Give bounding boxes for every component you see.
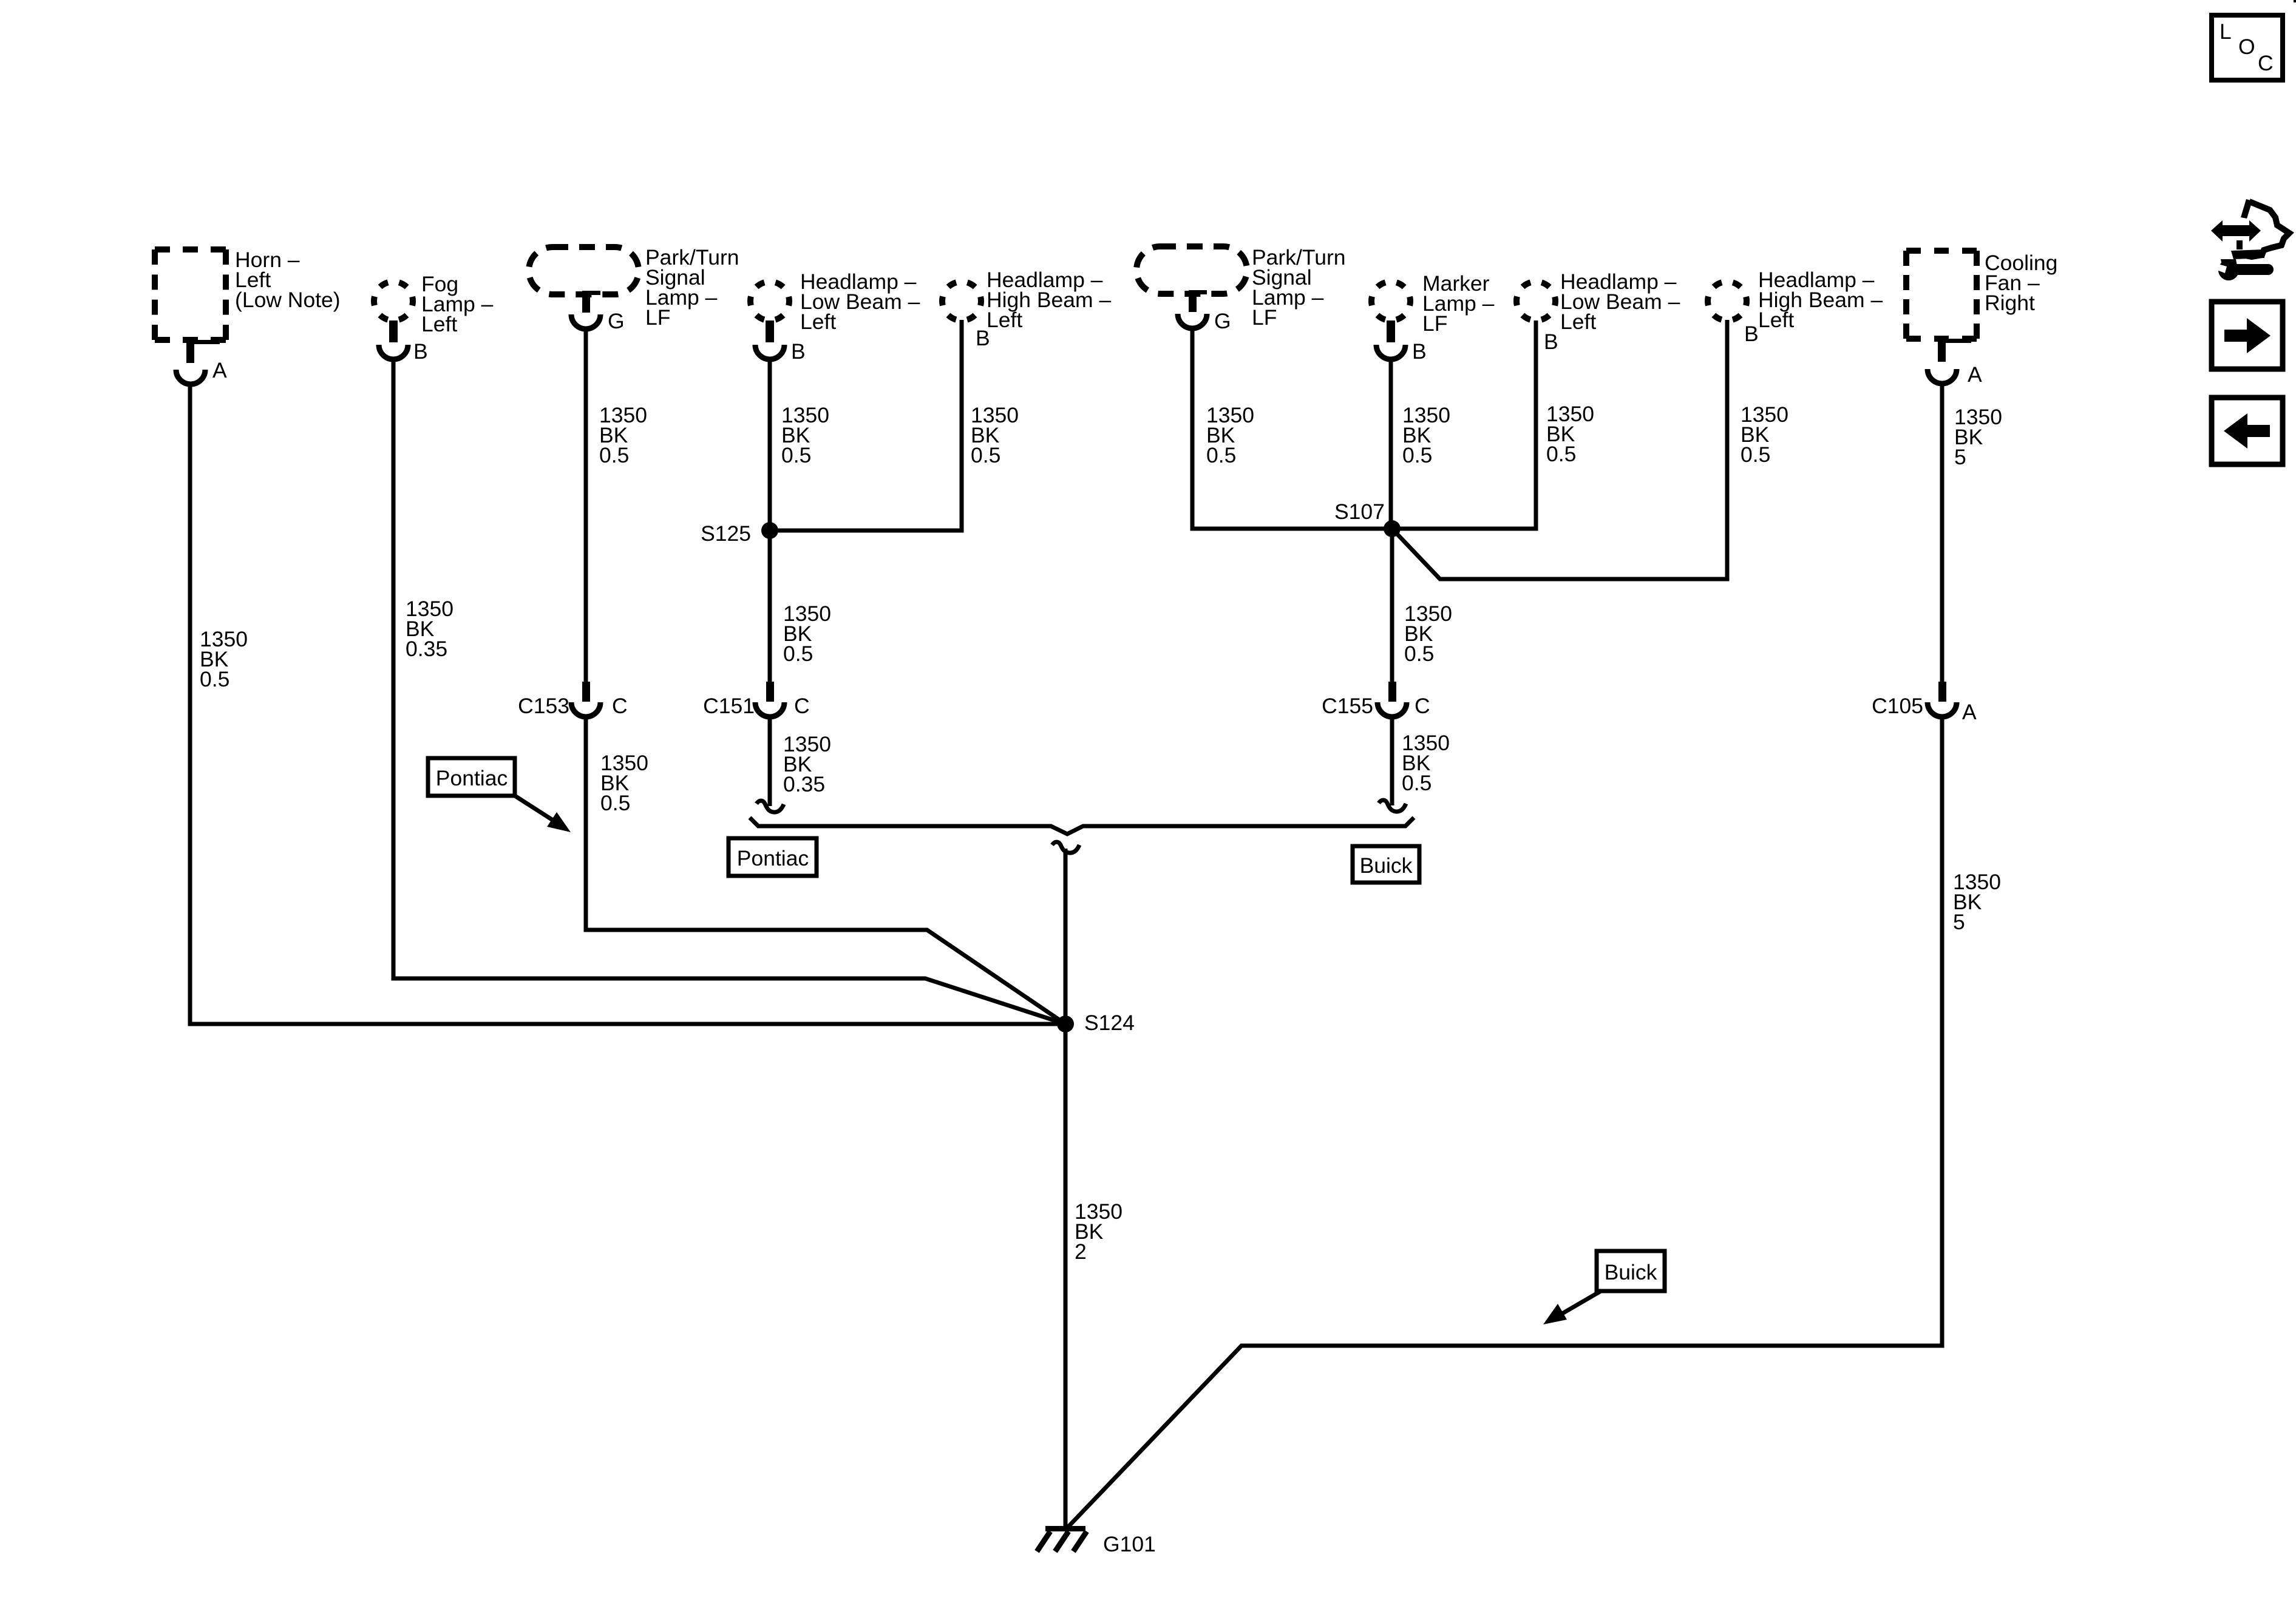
tool navigation icon outlined arrow: [2231, 199, 2289, 259]
wire park/turn 1 to C153 1350 BK 0.5: [584, 327, 588, 682]
horn connector cavity arc: [176, 370, 205, 384]
high beam 1 component label: [987, 268, 1111, 332]
svg-text:B: B: [413, 339, 428, 364]
wire label 1350 BK 0.5 below S107: [1404, 602, 1452, 666]
park/turn 1 pin terminal: [582, 291, 600, 313]
svg-text:L: L: [2220, 19, 2232, 44]
fog lamp E2 Fog Lamp - Left dashed circle: [374, 282, 413, 320]
wire label 1350 BK 0.5: [200, 627, 248, 691]
svg-text:2: 2: [1075, 1239, 1087, 1264]
wire label 1350 BK 0.5 below S125: [783, 602, 831, 666]
wire end squiggle at C151 branch: [756, 801, 784, 812]
harness center squiggle: [1052, 842, 1079, 853]
marker lamp pin terminal: [1387, 320, 1395, 342]
high beam 2 component label: [1758, 268, 1883, 332]
wire label 1350 BK 0.5: [1741, 402, 1788, 467]
svg-text:B: B: [976, 326, 990, 350]
wire park/turn 2 to S107: [1192, 327, 1392, 529]
svg-text:S124: S124: [1084, 1011, 1135, 1035]
wire high beam 1 to S125: [770, 320, 962, 531]
fog lamp component label: [421, 272, 494, 336]
wire label 1350 BK 0.5: [1206, 403, 1254, 467]
svg-text:G101: G101: [1103, 1532, 1156, 1556]
connector C153 cavity arc: [571, 702, 600, 717]
connector C151 cavity arc: [755, 702, 784, 717]
wire S107 to C155: [1390, 529, 1394, 682]
headlamp high beam left E5 dashed circle: [942, 282, 981, 320]
marker lamp LF E7 dashed circle: [1371, 282, 1410, 320]
svg-text:Left: Left: [987, 308, 1022, 332]
svg-text:C: C: [1415, 694, 1430, 718]
tool navigation icon double arrow: [2211, 220, 2261, 242]
marker connector cavity arc: [1376, 345, 1405, 359]
cooling fan connector cavity arc: [1927, 369, 1957, 384]
connector C151 pin: [766, 682, 774, 702]
ground G101 symbol: [1037, 1526, 1087, 1551]
svg-text:LF: LF: [1422, 311, 1447, 336]
svg-text:C: C: [794, 694, 810, 718]
harness brace Pontiac/Buick grouping: [750, 818, 1414, 834]
wire label 1350 BK 2: [1075, 1199, 1123, 1264]
wire label 1350 BK 0.5: [1402, 403, 1450, 467]
park/turn 2 connector cavity arc: [1178, 314, 1207, 328]
connector C153 pin: [582, 682, 590, 702]
svg-text:0.5: 0.5: [1402, 443, 1432, 467]
svg-text:G: G: [1214, 309, 1231, 333]
Pontiac callout box 1: [428, 758, 515, 796]
wire C155 to Buick harness 1350 BK 0.5: [1390, 718, 1394, 805]
low beam 1 component label: [800, 269, 920, 334]
Buick callout arrow: [1543, 1291, 1601, 1324]
hyperlink left arrow box: [2212, 398, 2283, 464]
horn pin terminal: [186, 340, 220, 363]
wire C151 to Pontiac harness 1350 BK 0.35: [768, 718, 772, 806]
svg-text:5: 5: [1954, 445, 1966, 469]
wire end squiggle at C155 branch: [1379, 800, 1406, 812]
svg-text:C153: C153: [518, 694, 569, 718]
wire high beam 2 to S107: [1392, 320, 1727, 579]
svg-text:0.5: 0.5: [971, 443, 1000, 467]
hyperlink right arrow box: [2212, 302, 2283, 369]
svg-text:C: C: [2258, 51, 2274, 75]
Pontiac callout arrow: [515, 796, 571, 832]
Buick callout box 2: [1597, 1251, 1665, 1291]
svg-text:B: B: [1412, 339, 1427, 364]
wire cooling fan to C105 1350 BK 5: [1940, 382, 1944, 682]
connector C105 cavity arc: [1927, 702, 1957, 717]
Pontiac callout box 2: [729, 838, 817, 876]
svg-text:Pontiac: Pontiac: [737, 846, 809, 870]
LOC legend box top right: [2212, 15, 2283, 80]
wire fog lamp to S124 1350 BK 0.35: [393, 358, 1065, 1024]
svg-text:Right: Right: [1985, 291, 2035, 315]
svg-text:5: 5: [1953, 910, 1965, 934]
svg-text:O: O: [2238, 35, 2255, 59]
wire label 1350 BK 0.35: [783, 732, 831, 796]
svg-text:C: C: [612, 694, 628, 718]
park/turn 2 component label: [1252, 245, 1346, 330]
connector C105 pin: [1938, 682, 1946, 702]
splice S124 dot: [1057, 1015, 1074, 1032]
svg-text:0.5: 0.5: [600, 791, 630, 815]
park/turn 1 component label: [645, 245, 739, 330]
horn E1 Horn - Left (Low Note) dashed component box: [155, 249, 226, 340]
horn component label: [235, 248, 341, 312]
svg-text:0.5: 0.5: [1546, 442, 1576, 466]
svg-text:0.5: 0.5: [599, 443, 629, 467]
svg-text:Left: Left: [421, 312, 457, 336]
wire label 1350 BK 0.5: [1546, 402, 1594, 466]
svg-text:LF: LF: [1252, 305, 1277, 330]
splice S125 dot: [761, 522, 778, 539]
headlamp high beam left E9 dashed circle: [1708, 282, 1747, 320]
fog connector cavity arc: [379, 345, 408, 359]
cooling fan pin terminal: [1938, 339, 1971, 362]
wire label 1350 BK 5: [1953, 870, 2001, 934]
marker lamp component label: [1422, 271, 1495, 336]
wire label 1350 BK 0.5: [781, 403, 829, 467]
fog lamp pin terminal: [389, 320, 398, 342]
wire label 1350 BK 0.5: [971, 403, 1019, 467]
svg-text:0.5: 0.5: [1741, 442, 1770, 467]
park/turn signal lamp LF E3 dashed stadium outline: [529, 247, 639, 294]
wire horn to S124 1350 BK 0.5: [190, 382, 1065, 1024]
headlamp low beam left E8 dashed circle: [1517, 282, 1555, 320]
tool navigation icon wrench: [2214, 259, 2268, 280]
svg-text:C105: C105: [1872, 694, 1923, 718]
svg-text:0.5: 0.5: [1404, 642, 1434, 666]
svg-text:0.35: 0.35: [406, 637, 447, 661]
svg-text:Buick: Buick: [1360, 853, 1413, 878]
low beam 1 pin terminal: [766, 320, 774, 342]
svg-text:Left: Left: [1758, 308, 1794, 332]
svg-text:A: A: [1968, 362, 1982, 387]
splice S107 dot: [1384, 520, 1401, 537]
svg-text:0.5: 0.5: [783, 642, 813, 666]
svg-text:0.5: 0.5: [1402, 771, 1432, 795]
svg-text:LF: LF: [645, 305, 670, 330]
headlamp low beam left E4 dashed circle: [750, 282, 789, 320]
low beam 1 connector cavity arc: [755, 345, 784, 359]
svg-text:C155: C155: [1322, 694, 1373, 718]
low beam 2 component label: [1560, 269, 1680, 334]
wire low beam 2 to S107: [1392, 320, 1536, 529]
wire label 1350 BK 0.5: [1402, 731, 1450, 795]
wire label 1350 BK 0.5: [600, 751, 648, 815]
page corner mark: [2294, 0, 2296, 2]
svg-text:S125: S125: [701, 521, 751, 546]
svg-text:A: A: [212, 358, 227, 382]
svg-text:B: B: [1744, 322, 1759, 346]
svg-text:0.5: 0.5: [200, 667, 229, 691]
wire label 1350 BK 0.35: [406, 597, 453, 661]
svg-text:Left: Left: [1560, 310, 1596, 334]
svg-text:0.5: 0.5: [1206, 443, 1236, 467]
svg-text:C151: C151: [703, 694, 755, 718]
svg-text:Buick: Buick: [1605, 1260, 1657, 1284]
park/turn 1 connector cavity arc: [571, 314, 600, 329]
Buick callout box 1: [1353, 846, 1419, 883]
wire low beam 1 to S125: [768, 358, 772, 682]
svg-text:G: G: [608, 309, 625, 333]
wire label 1350 BK 5: [1954, 405, 2002, 469]
svg-text:Pontiac: Pontiac: [436, 766, 508, 790]
connector C155 pin: [1388, 682, 1396, 702]
wire C153 to S124 1350 BK 0.5: [586, 718, 1065, 1024]
connector C155 cavity arc: [1377, 702, 1407, 717]
wire C105 to G101 1350 BK 5: [1067, 718, 1942, 1528]
wire marker lamp to S107: [1389, 358, 1393, 529]
svg-text:(Low Note): (Low Note): [235, 288, 341, 312]
svg-text:A: A: [1962, 700, 1977, 724]
wire harness to S124 and G101 ground wire 1350 BK 2: [1064, 849, 1068, 1528]
park/turn signal lamp LF E6 dashed stadium outline: [1136, 246, 1247, 294]
cooling fan right M1 dashed component box: [1906, 248, 1977, 254]
park/turn 2 pin terminal: [1189, 290, 1207, 312]
svg-text:Left: Left: [800, 310, 836, 334]
svg-text:B: B: [791, 339, 806, 364]
svg-text:0.35: 0.35: [783, 772, 825, 796]
svg-text:S107: S107: [1334, 500, 1385, 524]
svg-text:0.5: 0.5: [781, 443, 811, 467]
cooling fan component label: [1985, 251, 2057, 315]
wire label 1350 BK 0.5: [599, 403, 647, 467]
svg-text:B: B: [1544, 330, 1558, 354]
